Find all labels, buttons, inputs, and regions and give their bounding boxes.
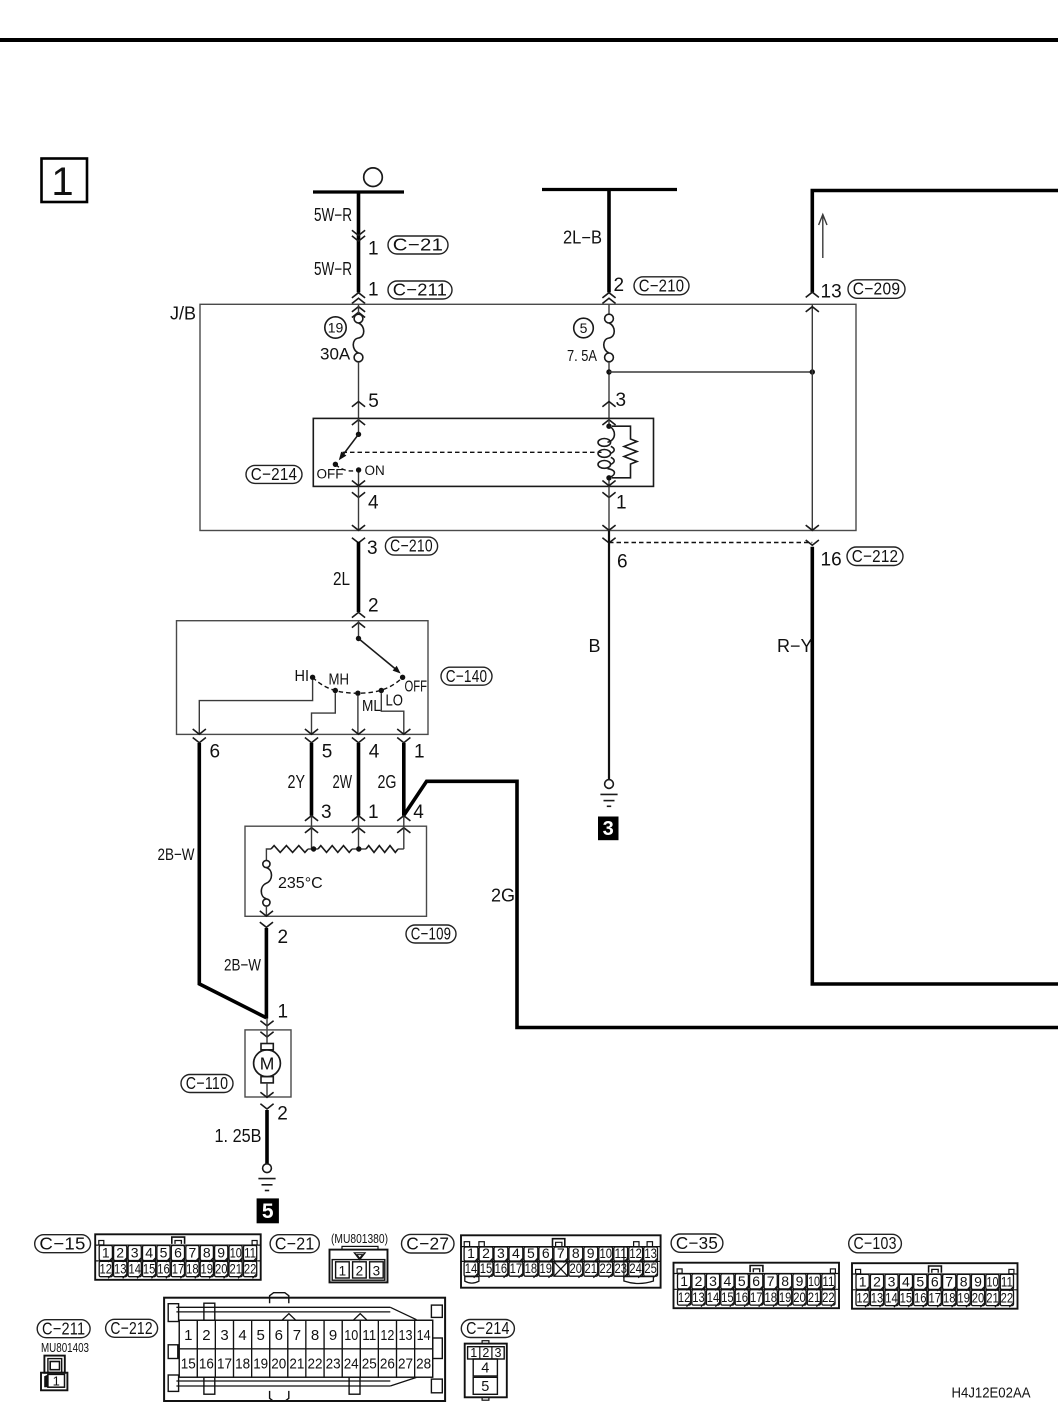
svg-text:19: 19: [540, 1260, 553, 1276]
page top rule: [0, 38, 1058, 42]
C-15 pin 10: [229, 1246, 242, 1261]
C-15 pin 11: [244, 1246, 257, 1261]
svg-text:16: 16: [914, 1290, 927, 1306]
svg-text:LO: LO: [386, 693, 404, 710]
C-27 pin 4: [509, 1247, 523, 1261]
thermal fuse 235C: [263, 860, 270, 867]
C-212 pin 16: [197, 1349, 215, 1377]
C-15 pin 1: [99, 1246, 112, 1261]
C-103 pin 12: [856, 1290, 869, 1305]
svg-text:16: 16: [736, 1289, 749, 1305]
C-27 pin 15: [479, 1262, 493, 1276]
C-103 corner keys: [856, 1269, 861, 1273]
svg-text:10: 10: [344, 1327, 358, 1344]
svg-text:10: 10: [987, 1273, 999, 1289]
svg-text:C−21: C−21: [275, 1233, 315, 1253]
blower relay box: [313, 418, 653, 486]
svg-text:15: 15: [143, 1261, 156, 1277]
svg-text:6: 6: [174, 1245, 182, 1261]
svg-text:C−210: C−210: [390, 536, 433, 556]
svg-text:22: 22: [1001, 1290, 1014, 1306]
C-212 pin 20: [270, 1349, 288, 1377]
svg-text:OFF: OFF: [405, 679, 428, 696]
connector label C-21 (bottom): [270, 1235, 319, 1253]
C-212 pin 9: [324, 1320, 342, 1349]
svg-text:J/B: J/B: [170, 304, 196, 324]
wire 2G: [402, 743, 406, 816]
svg-text:5: 5: [738, 1273, 746, 1289]
C-212 pin 27: [397, 1349, 415, 1377]
junction block J/B box: [200, 304, 856, 530]
C-15 pin 19: [200, 1261, 213, 1276]
C-103 lock tab: [929, 1266, 942, 1273]
svg-text:B: B: [589, 636, 601, 656]
svg-text:11: 11: [362, 1327, 376, 1344]
svg-text:4: 4: [512, 1245, 520, 1261]
svg-text:1. 25B: 1. 25B: [215, 1126, 262, 1146]
svg-text:28: 28: [416, 1356, 431, 1373]
svg-text:19: 19: [957, 1290, 970, 1306]
svg-text:11: 11: [1001, 1273, 1013, 1289]
svg-text:7: 7: [189, 1245, 197, 1261]
svg-text:6: 6: [752, 1273, 760, 1289]
svg-text:5W−R: 5W−R: [314, 259, 352, 279]
svg-text:12: 12: [856, 1290, 869, 1306]
svg-text:20: 20: [215, 1261, 228, 1277]
wire 2G branch to compressor circuit: [404, 781, 1058, 1027]
C-35 pin 8: [779, 1274, 792, 1289]
C-212 pin 13: [397, 1320, 415, 1349]
svg-text:22: 22: [822, 1289, 835, 1305]
ground (body earth 5): [263, 1164, 272, 1173]
C-35 pin 19: [779, 1290, 792, 1305]
svg-text:MH: MH: [329, 672, 350, 689]
connector label C-109: [406, 925, 456, 943]
svg-text:13: 13: [871, 1290, 884, 1306]
svg-text:2: 2: [873, 1273, 881, 1289]
C-27 pin 14: [464, 1262, 478, 1276]
svg-text:16: 16: [199, 1356, 214, 1373]
C-15 pin 15: [143, 1261, 156, 1276]
power feed bus (middle): [542, 188, 677, 191]
svg-text:4: 4: [902, 1273, 910, 1289]
C-35 pin 16: [735, 1290, 748, 1305]
svg-text:2: 2: [356, 1263, 364, 1278]
svg-text:HI: HI: [295, 668, 310, 685]
C-21 pin 1: [336, 1262, 350, 1278]
C-35 pin 4: [721, 1274, 734, 1289]
fuse number circle 19: [325, 317, 346, 338]
connector C-21 body: [342, 1246, 378, 1249]
svg-text:12: 12: [678, 1289, 691, 1305]
svg-text:4: 4: [724, 1273, 732, 1289]
connector label C-35: [671, 1234, 723, 1252]
C-35 pin 18: [764, 1290, 777, 1305]
C-35 pin 2: [692, 1274, 705, 1289]
svg-text:2: 2: [116, 1245, 124, 1261]
C-27 pin 6: [539, 1247, 553, 1261]
svg-text:10: 10: [230, 1245, 242, 1261]
switch dashed arc: [313, 677, 403, 693]
C-35 pin 22: [822, 1290, 835, 1305]
svg-text:8: 8: [572, 1245, 580, 1261]
C-103 pin 1: [856, 1274, 869, 1289]
C-103 pin 21: [986, 1290, 999, 1305]
power source circle: [364, 168, 383, 187]
svg-text:3: 3: [603, 818, 614, 840]
relay resistor: [612, 426, 637, 478]
svg-text:1: 1: [53, 1373, 60, 1388]
C-212 pin grid: [179, 1320, 433, 1377]
svg-text:4: 4: [481, 1361, 489, 1377]
C-15 lock tab: [172, 1237, 185, 1244]
relay pin 1: [602, 481, 615, 486]
connector marker C-211 (double chevron): [352, 293, 365, 298]
C-212 pin 11: [360, 1320, 378, 1349]
C-15 pin 7: [186, 1246, 199, 1261]
power feed bus (left): [313, 190, 404, 193]
C-35 pin 10: [807, 1274, 820, 1289]
C-27 pin 13: [644, 1247, 658, 1261]
C-15 pin 12: [99, 1261, 112, 1276]
C-27 pin 19: [539, 1262, 553, 1276]
svg-text:1: 1: [102, 1245, 110, 1261]
C-27 pin 12: [629, 1247, 643, 1261]
svg-text:16: 16: [821, 549, 842, 570]
wire LO to pin 1: [381, 693, 404, 734]
C-35 pin 7: [764, 1274, 777, 1289]
svg-text:5: 5: [527, 1245, 535, 1261]
svg-text:2G: 2G: [491, 886, 515, 906]
svg-text:3: 3: [888, 1273, 896, 1289]
svg-text:20: 20: [570, 1260, 583, 1276]
direction arrow: [822, 216, 824, 258]
svg-text:5: 5: [257, 1327, 265, 1344]
C-15 corner keys: [99, 1241, 104, 1245]
C-212 pin 26: [378, 1349, 396, 1377]
svg-text:14: 14: [417, 1327, 431, 1344]
svg-text:1: 1: [859, 1273, 867, 1289]
C-140 pin 5: [305, 729, 318, 734]
svg-text:16: 16: [157, 1261, 170, 1277]
svg-text:20: 20: [793, 1289, 806, 1305]
svg-text:C−140: C−140: [446, 666, 488, 686]
svg-text:1: 1: [680, 1273, 688, 1289]
connector marker C-209: [806, 292, 819, 297]
svg-text:4: 4: [145, 1245, 153, 1261]
motor pin 2: [260, 1092, 273, 1097]
svg-text:25: 25: [362, 1356, 377, 1373]
ground ref box 5: [257, 1198, 279, 1223]
connector label C-103: [849, 1234, 902, 1253]
svg-text:2B−W: 2B−W: [158, 845, 195, 864]
pin 16 of C-212 below J/B: [806, 525, 819, 530]
C-212 pin 6: [270, 1320, 288, 1349]
svg-text:1: 1: [467, 1245, 475, 1261]
C-15 pin 14: [128, 1261, 141, 1276]
connector label C-21: [388, 236, 448, 254]
wire 2B-W from pin 6: [199, 743, 266, 1018]
C-214 pin 5: [473, 1377, 497, 1394]
C-35 pin 15: [721, 1290, 734, 1305]
svg-text:22: 22: [244, 1261, 257, 1277]
svg-text:12: 12: [629, 1245, 642, 1261]
contact OFF: [400, 675, 405, 680]
svg-text:C−210: C−210: [639, 275, 685, 295]
svg-text:18: 18: [943, 1290, 956, 1306]
svg-text:8: 8: [960, 1273, 968, 1289]
connector label C-212: [847, 547, 903, 566]
blower motor box C-110: [245, 1030, 291, 1097]
wire 2L: [357, 542, 361, 612]
svg-text:13: 13: [399, 1327, 413, 1344]
C-15 pin 3: [128, 1246, 141, 1261]
C-214 pin 4: [473, 1359, 497, 1376]
svg-text:C−211: C−211: [42, 1318, 85, 1338]
svg-text:3: 3: [495, 1346, 502, 1360]
C-27 pin 18: [524, 1262, 538, 1276]
C-109 pin 2: [260, 911, 273, 916]
wire fuse19 to relay: [358, 362, 360, 419]
wire 5W-R vertical: [357, 192, 361, 292]
connector label C-212 (bottom): [106, 1319, 158, 1337]
svg-text:5: 5: [580, 320, 588, 336]
connector label C-214 (bottom): [461, 1320, 514, 1338]
svg-text:2L: 2L: [333, 569, 350, 589]
node junction below fuse 5: [606, 369, 611, 374]
connector label C-210: [385, 537, 437, 555]
wire col C through J/B: [811, 304, 813, 530]
svg-text:14: 14: [885, 1290, 898, 1306]
wire fuse5 to relay coil: [608, 362, 610, 419]
C-212 pin 14: [415, 1320, 433, 1349]
C-27 pin 17: [509, 1262, 523, 1276]
svg-text:1: 1: [339, 1263, 347, 1278]
svg-text:19: 19: [201, 1261, 214, 1277]
svg-text:5: 5: [262, 1200, 274, 1223]
svg-text:3: 3: [373, 1263, 381, 1278]
C-27 pin 25: [644, 1262, 658, 1276]
svg-text:R−Y: R−Y: [777, 636, 813, 656]
connector marker C-21 (double chevron): [352, 230, 365, 235]
C-27 pin 22: [599, 1262, 613, 1276]
svg-text:9: 9: [796, 1273, 804, 1289]
svg-text:235°C: 235°C: [278, 875, 323, 892]
svg-text:2: 2: [482, 1346, 489, 1360]
C-103 pin 22: [1000, 1290, 1013, 1305]
node pin3 tap: [311, 846, 316, 851]
C-27 pin 21: [584, 1262, 598, 1276]
C-212 pin 28: [415, 1349, 433, 1377]
svg-text:5: 5: [916, 1273, 924, 1289]
svg-text:7: 7: [557, 1245, 565, 1261]
svg-text:13: 13: [821, 282, 842, 303]
C-35 lock tab: [750, 1266, 763, 1273]
C-212 pin 24: [342, 1349, 360, 1377]
pin 3 of C-210 below J/B: [352, 525, 365, 530]
svg-text:21: 21: [584, 1260, 597, 1276]
resistor R2: [318, 846, 352, 853]
connector C-15 body: [95, 1234, 261, 1280]
svg-text:27: 27: [398, 1356, 413, 1373]
C-15 pin 17: [171, 1261, 184, 1276]
relay coil top node: [606, 424, 611, 429]
fuse number circle 5: [574, 318, 594, 338]
svg-text:8: 8: [311, 1327, 319, 1344]
connector label C-27: [402, 1234, 455, 1253]
contact MH: [333, 688, 338, 693]
C-27 pin 5: [524, 1247, 538, 1261]
connector label C-140: [441, 667, 492, 685]
C-103 pin 18: [943, 1290, 956, 1305]
C-212 pin 7: [288, 1320, 306, 1349]
fuse 19: [354, 314, 363, 323]
svg-text:C−21: C−21: [393, 235, 444, 255]
svg-text:C−214: C−214: [466, 1318, 510, 1338]
svg-text:14: 14: [128, 1261, 141, 1277]
svg-text:2: 2: [695, 1273, 703, 1289]
svg-text:H4J12E02AA: H4J12E02AA: [952, 1386, 1031, 1402]
C-27 pin 3: [494, 1247, 508, 1261]
svg-text:7. 5A: 7. 5A: [567, 348, 597, 365]
wire 2W: [357, 743, 361, 816]
svg-text:1: 1: [470, 1346, 477, 1360]
svg-text:5W−R: 5W−R: [314, 205, 352, 225]
C-21 pin 2: [353, 1262, 367, 1278]
C-103 pin 10: [986, 1274, 999, 1289]
svg-text:5: 5: [160, 1245, 168, 1261]
C-15 pin 2: [114, 1246, 127, 1261]
connector label C-209: [848, 280, 905, 299]
svg-text:2G: 2G: [378, 772, 397, 792]
svg-text:4: 4: [369, 742, 380, 763]
svg-text:C−103: C−103: [854, 1233, 897, 1253]
svg-text:8: 8: [203, 1245, 211, 1261]
C-212 pin 21: [288, 1349, 306, 1377]
C-27 pin 8: [569, 1247, 583, 1261]
connector C-214 body: [482, 1341, 489, 1344]
svg-text:19: 19: [253, 1356, 268, 1373]
relay switch arm: [343, 434, 359, 455]
C-103 pin 17: [928, 1290, 941, 1305]
svg-text:C−209: C−209: [853, 279, 901, 299]
wire R-Y: [812, 547, 1058, 984]
svg-text:13: 13: [114, 1261, 127, 1277]
connector C-211 icon: [44, 1356, 64, 1373]
svg-text:3: 3: [616, 390, 627, 411]
C-15 pin 20: [215, 1261, 228, 1276]
C-103 pin 4: [899, 1274, 912, 1289]
wire thermal fuse to pin 2: [265, 906, 267, 916]
svg-text:22: 22: [308, 1356, 323, 1373]
dashed link 6 to 16: [609, 542, 812, 544]
svg-text:23: 23: [614, 1260, 627, 1276]
C-35 pin 13: [692, 1290, 705, 1305]
C-15 pin 16: [157, 1261, 170, 1276]
svg-text:3: 3: [220, 1327, 228, 1344]
C-15 pin 13: [114, 1261, 127, 1276]
contact LO: [379, 688, 384, 693]
svg-text:2Y: 2Y: [288, 772, 306, 792]
wire to other circuit (top right corner): [812, 191, 1058, 293]
connector C-27 body: [461, 1235, 661, 1287]
wire relay box top to coil: [608, 418, 610, 426]
svg-text:18: 18: [186, 1261, 199, 1277]
C-212 pin 2: [197, 1320, 215, 1349]
C-15 pin 21: [229, 1261, 242, 1276]
motor terminal bottom: [261, 1077, 273, 1083]
svg-text:17: 17: [750, 1289, 763, 1305]
C-109 pin 3: [305, 816, 318, 821]
svg-text:2: 2: [277, 1104, 288, 1125]
svg-text:17: 17: [172, 1261, 185, 1277]
svg-text:7: 7: [767, 1273, 775, 1289]
svg-text:25: 25: [644, 1260, 657, 1276]
svg-text:1: 1: [184, 1327, 192, 1344]
C-35 pin 17: [750, 1290, 763, 1305]
C-212 housing bottom: [176, 1380, 390, 1382]
C-140 pin 4: [352, 729, 365, 734]
C-35 pin 6: [750, 1274, 763, 1289]
C-27 top keys: [464, 1242, 469, 1247]
svg-text:3: 3: [321, 802, 332, 823]
svg-text:4: 4: [238, 1327, 246, 1344]
svg-text:1: 1: [368, 239, 379, 260]
connector label C-15: [35, 1235, 91, 1253]
C-103 pin 11: [1000, 1274, 1013, 1289]
C-103 pin 20: [971, 1290, 984, 1305]
switch feed wire: [358, 621, 360, 639]
C-27 pin 20: [569, 1262, 583, 1276]
C-27 pin 2: [479, 1247, 493, 1261]
C-15 pin 9: [215, 1246, 228, 1261]
C-103 pin 8: [957, 1274, 970, 1289]
C-27 pin 7: [554, 1247, 568, 1261]
C-27 pin 11: [614, 1247, 628, 1261]
svg-text:26: 26: [380, 1356, 395, 1373]
node pin1 tap: [356, 846, 361, 851]
ground ref box 3: [598, 817, 619, 841]
wire relay box top to pivot: [358, 418, 360, 434]
wire relay ON contact to pin 4: [358, 470, 360, 486]
relay actuation dashed link: [343, 451, 602, 453]
svg-text:21: 21: [229, 1261, 242, 1277]
wire HI to pin 6: [199, 680, 312, 735]
C-103 pin 13: [870, 1290, 883, 1305]
C-212 pin 1: [179, 1320, 197, 1349]
C-212 pin 5: [252, 1320, 270, 1349]
svg-text:2: 2: [482, 1245, 490, 1261]
C-27 pin 9: [584, 1247, 598, 1261]
C-15 pin 22: [244, 1261, 257, 1276]
svg-text:3: 3: [497, 1245, 505, 1261]
wire ML to pin 4: [357, 696, 359, 735]
svg-text:21: 21: [289, 1356, 304, 1373]
connector label C-211 (bottom): [37, 1320, 90, 1338]
C-27 pin 1: [464, 1247, 478, 1261]
contact ML: [355, 691, 360, 696]
svg-text:C−109: C−109: [411, 924, 452, 944]
C-35 pin 1: [678, 1274, 691, 1289]
svg-text:18: 18: [235, 1356, 250, 1373]
C-212 pin 25: [360, 1349, 378, 1377]
svg-text:16: 16: [495, 1260, 508, 1276]
wire 2B-W from resistor: [265, 928, 269, 1019]
resistor box C-109: [245, 826, 427, 916]
svg-text:7: 7: [293, 1327, 301, 1344]
svg-text:6: 6: [275, 1327, 283, 1344]
C-27 blocked cavity: [554, 1262, 568, 1276]
